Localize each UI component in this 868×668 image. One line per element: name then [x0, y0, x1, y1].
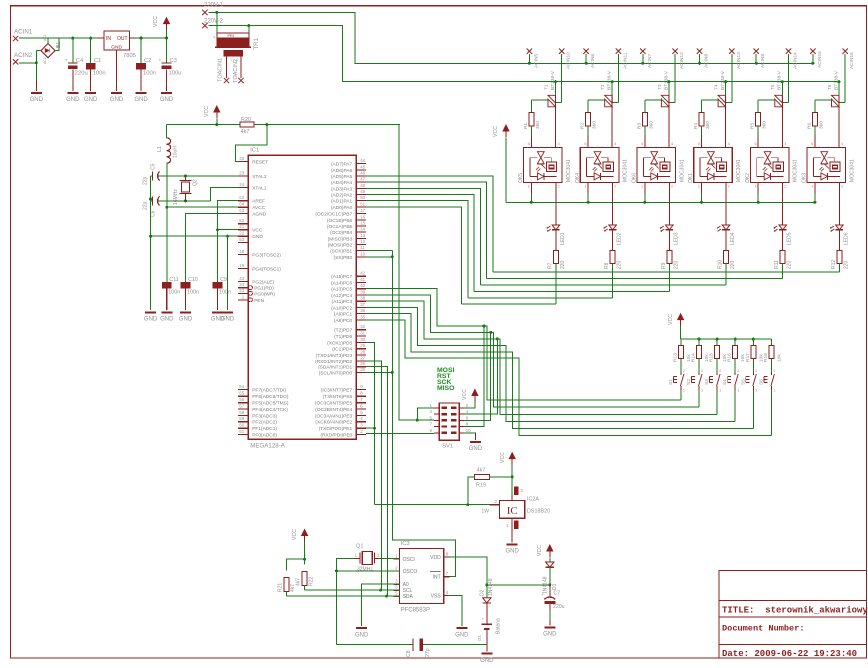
svg-text:GND: GND: [469, 446, 483, 452]
svg-text:(AD4)PA4: (AD4)PA4: [331, 180, 353, 186]
svg-text:VCC: VCC: [537, 545, 543, 556]
svg-text:ACIN6: ACIN6: [590, 54, 596, 68]
svg-text:PEN: PEN: [254, 298, 264, 304]
svg-text:ACIN7: ACIN7: [647, 54, 653, 68]
svg-text:43: 43: [239, 276, 244, 281]
svg-text:(SCL/INT0)PD0: (SCL/INT0)PD0: [319, 370, 353, 376]
svg-text:25: 25: [360, 367, 365, 372]
svg-text:OSCO: OSCO: [403, 569, 418, 575]
svg-text:22p: 22p: [143, 176, 149, 185]
svg-text:MISO: MISO: [437, 385, 454, 392]
svg-text:GND: GND: [179, 317, 193, 323]
svg-text:T1: T1: [543, 84, 549, 90]
svg-text:PF6(ADC6/TDO): PF6(ADC6/TDO): [252, 394, 289, 400]
svg-text:62: 62: [239, 195, 244, 200]
svg-text:R3: R3: [636, 123, 642, 129]
svg-text:14: 14: [360, 227, 365, 232]
svg-text:52: 52: [239, 218, 244, 223]
svg-text:41: 41: [360, 277, 365, 282]
svg-text:1: 1: [737, 389, 739, 393]
svg-text:VCC: VCC: [462, 389, 468, 400]
svg-text:GND: GND: [543, 632, 557, 638]
svg-text:D1: D1: [552, 583, 558, 590]
svg-text:S2: S2: [686, 379, 692, 385]
svg-text:(AD1)PA1: (AD1)PA1: [331, 199, 353, 205]
svg-text:D2: D2: [479, 589, 485, 596]
svg-text:360: 360: [592, 121, 598, 129]
svg-text:OK5: OK5: [518, 173, 524, 183]
svg-text:VCC: VCC: [153, 16, 159, 27]
svg-text:PF0(ADC0): PF0(ADC0): [252, 432, 277, 438]
svg-text:32: 32: [360, 324, 365, 329]
svg-text:Date: 2009-06-22 19:23:40: Date: 2009-06-22 19:23:40: [722, 649, 857, 659]
svg-text:1: 1: [773, 389, 775, 393]
svg-text:C11: C11: [169, 277, 179, 283]
svg-text:PFC8583P: PFC8583P: [401, 608, 430, 614]
svg-text:(MOSI)PB2: (MOSI)PB2: [328, 242, 353, 248]
svg-text:(A10)PC2: (A10)PC2: [331, 305, 352, 311]
svg-text:+: +: [65, 59, 68, 64]
svg-text:BT138-V: BT138-V: [663, 70, 669, 90]
svg-text:TOACIN1: TOACIN1: [218, 58, 224, 82]
svg-text:TITLE: sterownik_akwariowy: TITLE: sterownik_akwariowy: [722, 606, 868, 616]
svg-text:VCC: VCC: [668, 314, 674, 325]
svg-text:S3: S3: [704, 379, 710, 385]
svg-text:LED4: LED4: [730, 232, 736, 245]
svg-text:(AD5)PA5: (AD5)PA5: [331, 174, 353, 180]
svg-text:AC2: AC2: [43, 57, 47, 64]
svg-text:2: 2: [719, 369, 721, 373]
svg-text:(OC3A/AIN1)PE3: (OC3A/AIN1)PE3: [315, 413, 353, 419]
svg-text:PG3(TOSC2): PG3(TOSC2): [252, 253, 281, 259]
svg-text:(OC0)PB4: (OC0)PB4: [330, 230, 352, 236]
svg-text:BT138-V: BT138-V: [550, 70, 556, 90]
svg-text:MOC3041: MOC3041: [849, 159, 855, 182]
svg-text:+: +: [482, 617, 485, 622]
svg-text:220: 220: [617, 260, 623, 269]
svg-text:1: 1: [755, 389, 757, 393]
svg-text:Bateria: Bateria: [496, 618, 502, 634]
svg-text:GND: GND: [455, 632, 469, 638]
svg-text:61: 61: [239, 429, 244, 434]
svg-text:16: 16: [360, 214, 365, 219]
svg-text:PF1(ADC1): PF1(ADC1): [252, 426, 277, 432]
svg-text:6: 6: [214, 36, 216, 40]
svg-text:PRI: PRI: [228, 34, 234, 38]
svg-text:36: 36: [360, 308, 365, 313]
svg-text:GND: GND: [221, 317, 235, 323]
svg-text:12: 12: [360, 239, 365, 244]
svg-text:C9: C9: [220, 277, 227, 283]
svg-text:1W: 1W: [482, 509, 490, 515]
svg-text:PF4(ADC4/TCK): PF4(ADC4/TCK): [252, 407, 288, 413]
svg-text:1: 1: [230, 58, 232, 62]
svg-text:GND: GND: [84, 97, 98, 103]
svg-text:C4: C4: [76, 58, 84, 64]
svg-text:C8: C8: [406, 650, 412, 657]
svg-text:(AD6)PA6: (AD6)PA6: [331, 168, 353, 174]
svg-text:63: 63: [239, 208, 244, 213]
svg-text:(IC3/INT7)PE7: (IC3/INT7)PE7: [321, 387, 353, 393]
svg-text:50: 50: [360, 195, 365, 200]
svg-text:220: 220: [673, 260, 679, 269]
svg-text:37: 37: [360, 302, 365, 307]
svg-text:15: 15: [360, 220, 365, 225]
svg-text:30: 30: [360, 337, 365, 342]
svg-text:C2: C2: [144, 58, 151, 64]
svg-text:MEGA128-A: MEGA128-A: [250, 443, 286, 450]
svg-text:19: 19: [239, 263, 244, 268]
svg-text:S5: S5: [740, 379, 746, 385]
svg-text:R12: R12: [831, 260, 837, 269]
svg-text:GND: GND: [160, 97, 174, 103]
svg-text:ACIN15: ACIN15: [817, 51, 823, 68]
svg-text:T6: T6: [827, 84, 833, 90]
svg-text:27: 27: [360, 356, 365, 361]
svg-text:R18: R18: [763, 353, 769, 362]
svg-text:39: 39: [360, 289, 365, 294]
svg-text:R1: R1: [523, 123, 529, 129]
svg-text:ACIN11: ACIN11: [622, 52, 628, 69]
svg-text:R5: R5: [750, 123, 756, 129]
svg-text:360: 360: [705, 121, 711, 129]
svg-text:MOC3041: MOC3041: [623, 159, 629, 182]
svg-text:49: 49: [360, 189, 365, 194]
svg-text:44: 44: [360, 158, 365, 163]
svg-text:(MISO)PB3: (MISO)PB3: [328, 236, 353, 242]
svg-text:S6: S6: [758, 379, 764, 385]
svg-text:C10: C10: [188, 277, 198, 283]
svg-text:26: 26: [360, 361, 365, 366]
svg-text:VCC: VCC: [204, 106, 210, 117]
svg-text:LED5: LED5: [787, 232, 793, 245]
svg-text:R7: R7: [547, 262, 553, 269]
svg-text:(SDA/INT1)PD1: (SDA/INT1)PD1: [318, 365, 352, 371]
svg-text:47: 47: [360, 177, 365, 182]
svg-text:C1: C1: [94, 58, 101, 64]
svg-text:DS18B20: DS18B20: [527, 509, 550, 515]
svg-text:48: 48: [360, 183, 365, 188]
svg-text:PG4(TOSC1): PG4(TOSC1): [252, 266, 281, 272]
svg-text:29: 29: [360, 343, 365, 348]
svg-text:OK3: OK3: [802, 173, 808, 183]
svg-text:PF5(ADC5/TMS): PF5(ADC5/TMS): [252, 401, 289, 407]
svg-text:(AD7)PA7: (AD7)PA7: [331, 162, 353, 168]
svg-text:OK6: OK6: [632, 173, 638, 183]
svg-text:(T2)PD7: (T2)PD7: [334, 328, 352, 334]
svg-text:10: 10: [360, 251, 365, 256]
svg-text:10k: 10k: [776, 354, 782, 362]
svg-text:60: 60: [239, 423, 244, 428]
svg-text:T4: T4: [714, 84, 720, 90]
svg-text:100n: 100n: [219, 290, 231, 296]
svg-text:R20: R20: [241, 117, 251, 123]
svg-text:Document Number:: Document Number:: [722, 624, 805, 634]
svg-text:T5: T5: [770, 84, 776, 90]
svg-text:(SS)PB0: (SS)PB0: [334, 255, 353, 261]
svg-text:10uH: 10uH: [172, 146, 178, 158]
svg-text:LED6: LED6: [843, 232, 849, 245]
svg-text:4k7: 4k7: [477, 468, 486, 474]
svg-text:R17: R17: [745, 353, 751, 362]
svg-text:4k7: 4k7: [241, 129, 250, 135]
svg-text:VDD: VDD: [430, 555, 441, 561]
svg-text:R15: R15: [709, 353, 715, 362]
svg-text:ACIN8: ACIN8: [704, 54, 710, 68]
svg-text:GND: GND: [355, 632, 369, 638]
svg-text:10: 10: [466, 428, 471, 433]
svg-text:16MHz: 16MHz: [173, 189, 179, 205]
svg-text:VCC: VCC: [292, 529, 298, 540]
svg-text:R10: R10: [718, 260, 724, 269]
svg-text:C6: C6: [151, 210, 157, 217]
svg-text:TR1: TR1: [254, 38, 260, 50]
svg-text:MOC3041: MOC3041: [736, 159, 742, 182]
svg-text:13: 13: [360, 233, 365, 238]
svg-text:R6: R6: [806, 123, 812, 129]
svg-text:57: 57: [239, 404, 244, 409]
svg-text:OK2: OK2: [745, 173, 751, 183]
svg-text:11: 11: [360, 245, 365, 250]
svg-text:GND: GND: [66, 97, 80, 103]
svg-text:45: 45: [360, 164, 365, 169]
svg-text:34: 34: [239, 282, 244, 287]
svg-text:1: 1: [683, 389, 685, 393]
svg-text:GND: GND: [506, 549, 520, 555]
svg-text:PG2(ALE): PG2(ALE): [252, 280, 274, 286]
svg-text:ACIN10: ACIN10: [566, 52, 572, 69]
svg-text:IC3: IC3: [401, 541, 410, 547]
svg-text:58: 58: [239, 410, 244, 415]
svg-text:BT138-V: BT138-V: [607, 70, 613, 90]
svg-text:(TXD/PDO)PE1: (TXD/PDO)PE1: [319, 426, 353, 432]
svg-text:T2: T2: [600, 84, 606, 90]
svg-text:L1: L1: [157, 146, 163, 152]
svg-text:PF7(ADC7/TDI): PF7(ADC7/TDI): [252, 387, 286, 393]
svg-text:VSS: VSS: [431, 593, 442, 599]
svg-text:C7: C7: [554, 591, 561, 597]
svg-text:GND: GND: [160, 317, 174, 323]
svg-text:24: 24: [239, 182, 244, 187]
svg-text:GND: GND: [30, 97, 44, 103]
svg-text:42: 42: [360, 271, 365, 276]
svg-text:28: 28: [360, 349, 365, 354]
svg-text:PF2(ADC2): PF2(ADC2): [252, 420, 277, 426]
svg-text:(OC2/OC1C)PB7: (OC2/OC1C)PB7: [315, 212, 352, 218]
svg-text:2: 2: [773, 369, 775, 373]
svg-text:ACIN12: ACIN12: [679, 52, 685, 69]
svg-text:59: 59: [239, 416, 244, 421]
svg-text:XTAL2: XTAL2: [252, 174, 267, 180]
svg-text:17: 17: [360, 208, 365, 213]
svg-text:GND: GND: [111, 45, 122, 51]
svg-text:(OC3C/INT5)PE5: (OC3C/INT5)PE5: [315, 401, 353, 407]
svg-text:100n: 100n: [143, 71, 156, 77]
svg-text:LED1: LED1: [560, 232, 566, 245]
svg-text:TOACIN2: TOACIN2: [233, 59, 239, 83]
svg-text:AREF: AREF: [252, 199, 265, 205]
svg-text:IC2A: IC2A: [527, 497, 539, 503]
svg-text:PG0(WR): PG0(WR): [254, 291, 275, 297]
svg-text:360: 360: [535, 121, 541, 129]
svg-text:G1: G1: [477, 635, 482, 641]
svg-text:R22: R22: [309, 577, 315, 586]
svg-text:1: 1: [719, 389, 721, 393]
svg-text:Q1: Q1: [356, 544, 363, 550]
svg-text:220: 220: [560, 260, 566, 269]
svg-text:GND: GND: [134, 97, 148, 103]
svg-text:(AD3)PA3: (AD3)PA3: [331, 186, 353, 192]
svg-text:R9: R9: [661, 262, 667, 269]
svg-text:18: 18: [239, 249, 244, 254]
svg-text:38: 38: [360, 296, 365, 301]
svg-text:40: 40: [360, 283, 365, 288]
svg-text:(SCK)PB1: (SCK)PB1: [330, 249, 352, 255]
svg-text:4k7: 4k7: [296, 578, 302, 586]
svg-text:(A14)PC6: (A14)PC6: [331, 280, 352, 286]
svg-text:31: 31: [360, 331, 365, 336]
svg-text:PF3(ADC3): PF3(ADC3): [252, 413, 277, 419]
svg-text:C3: C3: [170, 58, 177, 64]
svg-text:BT138-V: BT138-V: [720, 70, 726, 90]
svg-text:51: 51: [360, 201, 365, 206]
svg-text:S1: S1: [668, 379, 674, 385]
svg-text:SV1: SV1: [442, 444, 453, 450]
svg-text:OSCI: OSCI: [403, 557, 415, 563]
svg-text:2: 2: [683, 369, 685, 373]
svg-text:55: 55: [239, 391, 244, 396]
svg-text:33: 33: [239, 288, 244, 293]
svg-text:2: 2: [701, 369, 703, 373]
svg-text:S4: S4: [722, 379, 728, 385]
svg-text:+: +: [541, 592, 544, 597]
svg-text:IC: IC: [507, 505, 518, 517]
svg-text:AGND: AGND: [252, 212, 266, 218]
svg-text:LED2: LED2: [617, 232, 623, 245]
svg-text:220: 220: [787, 260, 793, 269]
svg-text:BT138-V: BT138-V: [833, 70, 839, 90]
svg-text:100n: 100n: [187, 290, 199, 296]
svg-text:2: 2: [737, 369, 739, 373]
svg-text:(TXD1/INT3)PD3: (TXD1/INT3)PD3: [316, 353, 353, 359]
svg-text:(XCK1)PD5: (XCK1)PD5: [327, 341, 352, 347]
svg-text:PG1(RD): PG1(RD): [254, 286, 274, 292]
svg-text:(AD0)PA0: (AD0)PA0: [331, 205, 353, 211]
svg-text:1: 1: [701, 389, 703, 393]
svg-text:ACIN1: ACIN1: [14, 29, 33, 36]
svg-text:20: 20: [239, 156, 244, 161]
svg-text:R8: R8: [604, 262, 610, 269]
svg-text:(A13)PC5: (A13)PC5: [331, 287, 352, 293]
svg-text:64: 64: [239, 202, 244, 207]
svg-text:360: 360: [818, 121, 824, 129]
svg-text:(T1)PD6: (T1)PD6: [334, 334, 352, 340]
svg-text:220u: 220u: [553, 604, 565, 610]
svg-text:GND: GND: [144, 317, 158, 323]
svg-text:(A11)PC3: (A11)PC3: [331, 299, 352, 305]
svg-text:ACIN5: ACIN5: [533, 54, 539, 68]
svg-text:BT138-V: BT138-V: [777, 70, 783, 90]
svg-text:100n: 100n: [168, 290, 180, 296]
svg-text:IC1: IC1: [250, 148, 259, 154]
svg-text:+: +: [159, 59, 162, 64]
svg-text:XTAL1: XTAL1: [252, 186, 267, 192]
svg-text:R16: R16: [727, 353, 733, 362]
svg-text:(A8)PC0: (A8)PC0: [334, 318, 353, 324]
svg-text:R11: R11: [774, 260, 780, 269]
svg-text:(XCK0/AIN0)PE2: (XCK0/AIN0)PE2: [315, 420, 352, 426]
svg-text:35: 35: [360, 314, 365, 319]
svg-text:VCC: VCC: [252, 228, 263, 234]
svg-text:Q2: Q2: [193, 179, 199, 186]
svg-text:R13: R13: [672, 353, 678, 362]
svg-text:MOC3041: MOC3041: [793, 159, 799, 182]
svg-text:(AD2)PA2: (AD2)PA2: [331, 193, 353, 199]
svg-text:ACIN2: ACIN2: [14, 52, 33, 59]
svg-text:OUT: OUT: [117, 36, 128, 42]
svg-text:(A15)PC7: (A15)PC7: [331, 274, 352, 280]
svg-text:53: 53: [239, 237, 244, 242]
svg-text:(T3/INT6)PE6: (T3/INT6)PE6: [323, 394, 353, 400]
svg-text:23: 23: [239, 171, 244, 176]
svg-text:100n: 100n: [93, 71, 106, 77]
svg-text:GND: GND: [110, 97, 124, 103]
svg-text:R21: R21: [278, 583, 284, 592]
svg-text:(IC1)PD4: (IC1)PD4: [332, 347, 352, 353]
svg-text:OK4: OK4: [575, 173, 581, 183]
svg-text:SDA: SDA: [403, 594, 414, 600]
svg-text:(A12)PC4: (A12)PC4: [331, 293, 352, 299]
svg-text:360: 360: [648, 121, 654, 129]
svg-text:220u: 220u: [75, 71, 88, 77]
svg-text:INT: INT: [433, 575, 441, 581]
svg-text:ACIN9: ACIN9: [760, 54, 766, 68]
svg-text:220: 220: [843, 260, 849, 269]
svg-text:T3: T3: [657, 84, 663, 90]
svg-text:(OC1A)PB5: (OC1A)PB5: [327, 224, 353, 230]
svg-text:ACIN14: ACIN14: [793, 52, 799, 69]
svg-text:MOC3041: MOC3041: [566, 159, 572, 182]
svg-text:(A9)PC1: (A9)PC1: [334, 312, 353, 318]
svg-text:R4: R4: [693, 123, 699, 129]
svg-text:(OC3B/INT4)PE4: (OC3B/INT4)PE4: [315, 407, 352, 413]
svg-text:R2: R2: [580, 123, 586, 129]
svg-text:IN: IN: [106, 36, 111, 42]
svg-text:GND: GND: [252, 234, 263, 240]
svg-text:22: 22: [239, 231, 244, 236]
svg-text:MOC3041: MOC3041: [679, 159, 685, 182]
svg-text:C5: C5: [151, 163, 157, 170]
svg-text:100u: 100u: [169, 71, 182, 77]
svg-text:2: 2: [755, 369, 757, 373]
svg-text:ACIN16: ACIN16: [849, 52, 855, 69]
svg-text:(RXD1/INT2)PD2: (RXD1/INT2)PD2: [315, 359, 352, 365]
svg-text:VCC: VCC: [493, 126, 499, 137]
svg-text:21: 21: [239, 224, 244, 229]
svg-text:360: 360: [762, 121, 768, 129]
svg-text:1N4148: 1N4148: [488, 578, 494, 596]
svg-text:46: 46: [360, 171, 365, 176]
svg-text:220V-1: 220V-1: [204, 3, 224, 9]
svg-text:(OC1B)PB6: (OC1B)PB6: [327, 218, 353, 224]
svg-text:32MHz: 32MHz: [357, 567, 373, 573]
svg-text:54: 54: [239, 384, 244, 389]
svg-text:27p: 27p: [425, 648, 431, 657]
svg-text:(RXD/PDI)PE0: (RXD/PDI)PE0: [320, 432, 352, 438]
svg-text:LED3: LED3: [673, 232, 679, 245]
svg-text:AVCC: AVCC: [252, 205, 266, 211]
svg-text:22p: 22p: [143, 201, 149, 210]
